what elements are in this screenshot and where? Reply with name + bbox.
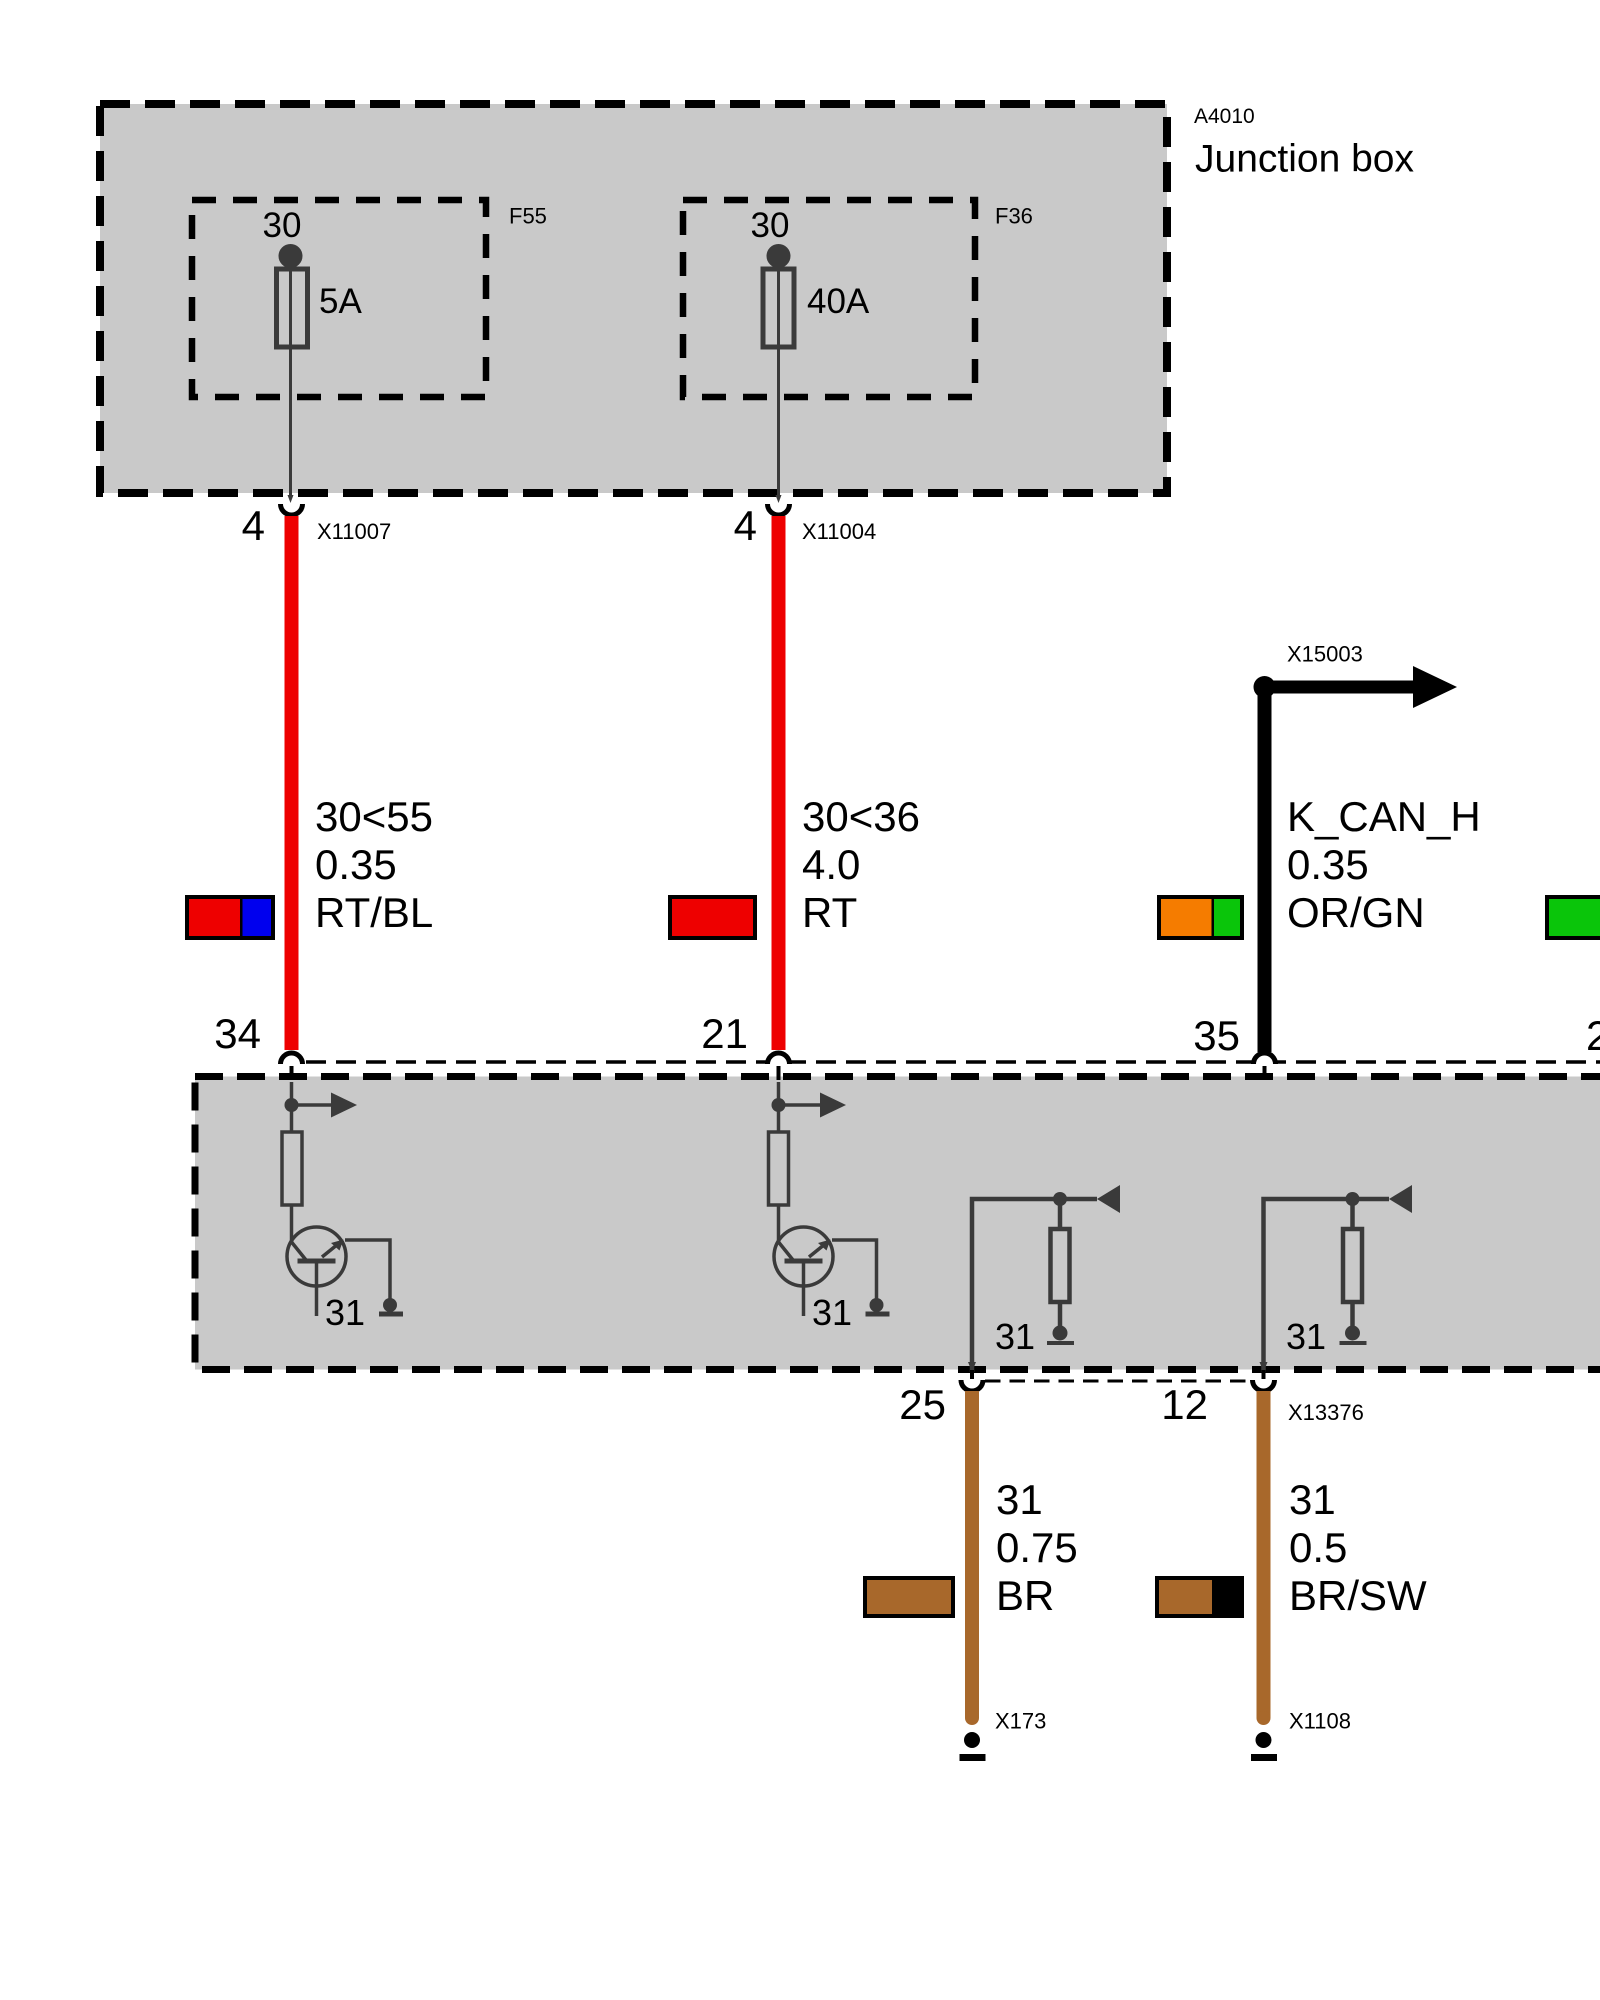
wire K_CAN_H vertical (black) xyxy=(1258,687,1272,1052)
wire from pin 34 into control unit xyxy=(290,1082,294,1132)
svg-text:31: 31 xyxy=(1286,1316,1326,1357)
internal signal arrowhead xyxy=(820,1093,846,1118)
Q1 emitter lead xyxy=(322,1240,343,1257)
fuse F36 body xyxy=(763,269,794,347)
svg-text:BR/SW: BR/SW xyxy=(1289,1572,1427,1619)
transistor circuit 2 (pin 21) xyxy=(769,1082,890,1317)
wire node to resistor xyxy=(1058,1199,1063,1229)
ground X173 bar xyxy=(960,1754,986,1761)
Q2 base lead down xyxy=(802,1261,806,1316)
colour swatch BR/SW brown part xyxy=(1157,1578,1242,1616)
svg-text:35: 35 xyxy=(1193,1012,1240,1059)
colour swatch BR/SW border xyxy=(1157,1578,1242,1616)
svg-text:X15003: X15003 xyxy=(1287,642,1363,667)
node dot xyxy=(285,1098,299,1112)
wire emitter to ground xyxy=(345,1240,390,1300)
colour swatch RT/BL red part xyxy=(187,897,273,938)
Q1 base bar xyxy=(298,1259,336,1264)
pin 35 stub xyxy=(1263,1066,1267,1080)
ground bar xyxy=(379,1312,403,1317)
fuse box F55 xyxy=(192,200,486,397)
wire BR rounded end xyxy=(965,1711,979,1725)
wire to internal signal arrow xyxy=(292,1103,333,1107)
resistor R (base series) xyxy=(769,1132,789,1205)
node dot xyxy=(1346,1192,1360,1206)
transistor Q1 circle xyxy=(287,1227,346,1286)
ground dot xyxy=(870,1298,884,1312)
transistor Q2 circle xyxy=(774,1227,833,1286)
wire resistor to ground xyxy=(1058,1302,1063,1330)
control unit box xyxy=(195,1077,1600,1370)
ground bar xyxy=(1047,1341,1074,1345)
wire pin 25 up and across xyxy=(972,1199,1097,1372)
svg-text:5A: 5A xyxy=(319,282,362,321)
connector socket pin 4 X11007 xyxy=(281,504,303,515)
colour swatch RT xyxy=(670,897,755,938)
terminating resistor xyxy=(1051,1229,1070,1302)
svg-text:0.35: 0.35 xyxy=(315,841,397,888)
svg-text:0.5: 0.5 xyxy=(1289,1524,1347,1571)
svg-text:F55: F55 xyxy=(509,204,547,229)
wire arrowhead at pin 12 xyxy=(1260,1362,1268,1372)
CAN terminator circuit 1 (pin 25) xyxy=(968,1185,1120,1372)
pin 25 stub xyxy=(970,1370,974,1379)
ground X173 dot xyxy=(964,1732,980,1748)
terminal 30 node dot (F55) xyxy=(279,244,303,268)
internal signal arrowhead (left pointing) xyxy=(1389,1185,1412,1213)
ground dot xyxy=(1053,1326,1068,1341)
fuse F55 body xyxy=(277,269,308,347)
wire arrowhead at pin 25 xyxy=(968,1362,976,1372)
svg-text:12: 12 xyxy=(1161,1381,1208,1428)
connector strip dashed line (top row) xyxy=(306,1060,1600,1064)
svg-text:BR: BR xyxy=(996,1572,1054,1619)
svg-text:X13376: X13376 xyxy=(1288,1400,1364,1425)
svg-text:31: 31 xyxy=(996,1476,1043,1523)
colour swatch BR/SW black part xyxy=(1212,1578,1242,1616)
colour swatch OR/GN border xyxy=(1159,897,1242,938)
node junction dot K_CAN_H xyxy=(1254,676,1276,698)
svg-text:RT/BL: RT/BL xyxy=(315,889,433,936)
svg-text:Junction box: Junction box xyxy=(1195,138,1414,181)
connector strip dashed line (bottom row) xyxy=(985,1380,1253,1383)
Q1 emitter arrowhead xyxy=(331,1240,344,1251)
svg-text:40A: 40A xyxy=(807,282,870,321)
internal signal arrowhead xyxy=(331,1093,357,1118)
ground X1108 dot xyxy=(1256,1732,1272,1748)
svg-text:2: 2 xyxy=(1586,1012,1600,1059)
svg-text:X1108: X1108 xyxy=(1289,1709,1351,1734)
svg-text:F36: F36 xyxy=(995,204,1033,229)
colour swatch OR/GN orange part xyxy=(1159,897,1242,938)
Q2 base bar xyxy=(785,1259,823,1264)
svg-text:4: 4 xyxy=(242,502,265,549)
Q2 emitter lead xyxy=(809,1240,830,1257)
svg-text:30<55: 30<55 xyxy=(315,793,433,840)
svg-text:OR/GN: OR/GN xyxy=(1287,889,1425,936)
wire BR/SW rounded end xyxy=(1257,1711,1271,1725)
colour swatch OR/GN divider xyxy=(1212,897,1215,938)
svg-text:A4010: A4010 xyxy=(1194,105,1255,128)
connector socket pin 21 xyxy=(768,1053,790,1064)
terminating resistor xyxy=(1343,1229,1362,1302)
svg-text:X11004: X11004 xyxy=(802,519,876,544)
svg-text:31: 31 xyxy=(995,1316,1035,1357)
ground X1108 bar xyxy=(1251,1754,1277,1761)
wire from pin 21 into control unit xyxy=(777,1082,781,1132)
wire 31 0.75 BR (brown) xyxy=(965,1391,979,1718)
svg-text:X173: X173 xyxy=(995,1709,1046,1734)
wire 30&lt;36 4.0 RT (red) xyxy=(772,516,786,1050)
Q2 emitter arrowhead xyxy=(818,1240,831,1251)
transistor circuit 1 (pin 34) xyxy=(282,1082,403,1317)
svg-text:0.35: 0.35 xyxy=(1287,841,1369,888)
ground dot xyxy=(1345,1326,1360,1341)
resistor R (base series) xyxy=(282,1132,302,1205)
wire pin 12 up and across xyxy=(1264,1199,1390,1372)
connector socket pin 25 xyxy=(961,1380,983,1391)
junction box A4010 xyxy=(100,104,1167,493)
wire 31 0.5 BR/SW (brown) xyxy=(1257,1391,1271,1718)
wire from terminal 30 through fuse F36 to pin 4 xyxy=(777,256,780,496)
colour swatch GN (clipped at right edge) xyxy=(1547,897,1600,938)
pin 34 stub xyxy=(290,1066,294,1080)
svg-text:31: 31 xyxy=(1289,1476,1336,1523)
svg-text:31: 31 xyxy=(325,1292,365,1333)
node dot xyxy=(1053,1192,1067,1206)
svg-text:25: 25 xyxy=(899,1381,946,1428)
wire resistor to transistor Q1 xyxy=(290,1205,294,1243)
pin 12 stub xyxy=(1262,1370,1266,1379)
wire resistor to transistor Q2 xyxy=(777,1205,781,1243)
node dot xyxy=(772,1098,786,1112)
svg-text:21: 21 xyxy=(701,1010,748,1057)
connector socket pin 35 xyxy=(1254,1053,1276,1064)
svg-text:34: 34 xyxy=(214,1010,261,1057)
colour swatch RT/BL blue part xyxy=(242,897,273,938)
wire emitter to ground xyxy=(832,1240,877,1300)
wire arrowhead at connector X11004 xyxy=(776,495,782,503)
Q1 base lead down xyxy=(315,1261,319,1316)
connector socket pin 34 xyxy=(281,1053,303,1064)
Q1 collector lead xyxy=(292,1242,307,1260)
terminal 30 node dot (F36) xyxy=(767,244,791,268)
wire node to resistor xyxy=(1350,1199,1355,1229)
fuse box F36 xyxy=(683,200,975,397)
wire to X15003 horizontal (black) xyxy=(1265,681,1416,694)
ground dot xyxy=(383,1298,397,1312)
svg-text:31: 31 xyxy=(812,1292,852,1333)
internal signal arrowhead (left pointing) xyxy=(1097,1185,1120,1213)
colour swatch RT/BL divider xyxy=(240,897,243,938)
svg-text:4.0: 4.0 xyxy=(802,841,860,888)
svg-text:4: 4 xyxy=(734,502,757,549)
connector socket pin 4 X11004 xyxy=(768,504,790,515)
CAN terminator circuit 2 (pin 12) xyxy=(1260,1185,1413,1372)
svg-text:X11007: X11007 xyxy=(317,519,391,544)
Q2 collector lead xyxy=(779,1242,794,1260)
colour swatch RT/BL border xyxy=(187,897,273,938)
colour swatch OR/GN green part xyxy=(1213,897,1242,938)
wire arrowhead at connector X11007 xyxy=(288,495,294,503)
wire 30&lt;55 0.35 RT/BL (red) xyxy=(285,516,299,1050)
ground bar xyxy=(866,1312,890,1317)
svg-text:RT: RT xyxy=(802,889,857,936)
svg-text:30: 30 xyxy=(751,206,790,245)
connector socket pin 12 xyxy=(1253,1380,1275,1391)
svg-text:30<36: 30<36 xyxy=(802,793,920,840)
ground bar xyxy=(1340,1341,1367,1345)
svg-text:30: 30 xyxy=(263,206,302,245)
wire resistor to ground xyxy=(1350,1302,1355,1330)
wire from terminal 30 through fuse F55 to pin 4 xyxy=(289,256,292,496)
arrowhead to X15003 xyxy=(1413,666,1457,708)
svg-text:K_CAN_H: K_CAN_H xyxy=(1287,793,1481,840)
pin 21 stub xyxy=(777,1066,781,1080)
wire to internal signal arrow xyxy=(779,1103,822,1107)
colour swatch BR xyxy=(865,1578,953,1616)
svg-text:0.75: 0.75 xyxy=(996,1524,1078,1571)
